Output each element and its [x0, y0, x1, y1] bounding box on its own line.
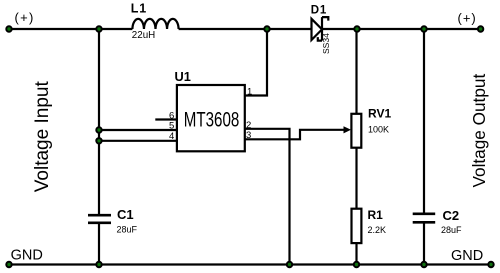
- node junction C2 top: [421, 26, 426, 31]
- capacitor C2 plates: [413, 214, 436, 223]
- wire C1 bottom to ground: [98, 223, 100, 265]
- svg-text:U1: U1: [175, 69, 191, 84]
- svg-text:2.2K: 2.2K: [368, 225, 387, 235]
- svg-text:4: 4: [169, 131, 174, 142]
- svg-text:R1: R1: [368, 208, 384, 222]
- wire R1 to ground: [355, 243, 357, 264]
- wire bottom ground rail: [9, 263, 491, 265]
- svg-text:(+): (+): [15, 10, 35, 25]
- wire pin2 to ground: [245, 129, 290, 265]
- wire pin1 riser: [245, 29, 267, 96]
- resistor R1 body: [352, 209, 362, 243]
- node terminal gnd right: [488, 262, 493, 267]
- inductor L1: [132, 19, 178, 29]
- svg-text:1: 1: [247, 86, 252, 97]
- node junction pin5: [96, 127, 101, 132]
- wire top rail left: [9, 28, 132, 30]
- node junction L1 branch: [96, 26, 101, 31]
- svg-text:C1: C1: [117, 207, 134, 222]
- wire RV1 top: [355, 29, 357, 114]
- node junction C2 gnd: [421, 262, 426, 267]
- svg-text:5: 5: [169, 121, 174, 132]
- potentiometer RV1 body: [351, 114, 361, 148]
- wire pin3 to wiper: [245, 130, 345, 140]
- svg-text:3: 3: [246, 130, 251, 141]
- wire top rail right: [322, 28, 481, 30]
- node terminal gnd left: [6, 262, 11, 267]
- wire RV1 to R1: [355, 148, 357, 209]
- wire input branch vertical x=99: [98, 29, 100, 215]
- node junction pin4: [96, 138, 101, 143]
- node junction pin2 gnd: [287, 262, 292, 267]
- svg-text:L1: L1: [131, 2, 147, 16]
- wire pin6 stub: [155, 118, 177, 120]
- node terminal output plus: [478, 26, 483, 31]
- svg-text:C2: C2: [443, 208, 460, 223]
- svg-text:SS34: SS34: [321, 33, 331, 54]
- node terminal input plus: [6, 26, 11, 31]
- IC U1 MT3608 body: [177, 85, 245, 151]
- svg-text:Voltage Output: Voltage Output: [469, 74, 489, 188]
- svg-text:(+): (+): [458, 11, 477, 26]
- svg-text:RV1: RV1: [368, 107, 391, 121]
- svg-text:100K: 100K: [368, 125, 389, 135]
- node junction R1 gnd: [354, 262, 359, 267]
- svg-text:GND: GND: [451, 248, 483, 264]
- RV1 wiper arrowhead: [344, 126, 352, 133]
- svg-text:D1: D1: [311, 4, 327, 16]
- svg-text:Voltage Input: Voltage Input: [32, 81, 53, 193]
- node junction pin1 riser: [264, 26, 269, 31]
- wire pin5: [99, 129, 177, 131]
- capacitor C1 plates: [88, 215, 111, 223]
- svg-text:MT3608: MT3608: [184, 109, 240, 132]
- svg-text:GND: GND: [11, 248, 43, 264]
- svg-text:22uH: 22uH: [132, 30, 155, 41]
- svg-text:28uF: 28uF: [441, 225, 462, 235]
- wire C2 bottom: [423, 222, 425, 264]
- node junction diode output: [354, 26, 359, 31]
- node junction C1 gnd: [96, 262, 101, 267]
- wire top rail middle: [179, 28, 312, 30]
- diode D1: [312, 17, 329, 40]
- wire pin4: [99, 140, 177, 142]
- svg-text:28uF: 28uF: [117, 225, 138, 235]
- wire C2 top: [423, 29, 425, 214]
